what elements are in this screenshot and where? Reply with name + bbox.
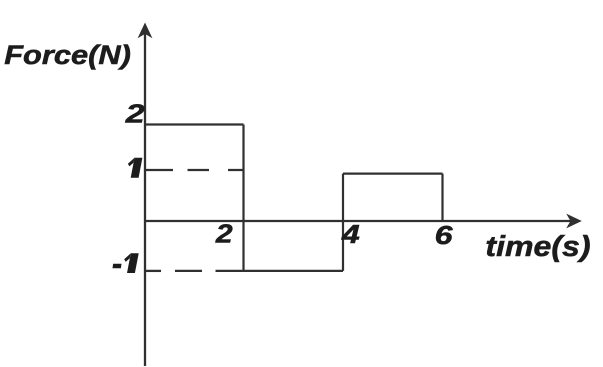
force step segment 4-6s at 1N	[343, 173, 443, 175]
svg-text:6: 6	[435, 222, 454, 250]
dashed guide line at 1N	[145, 169, 245, 171]
step drop at t=2s	[242, 125, 244, 271]
y-axis	[144, 31, 146, 366]
x-axis arrowhead	[566, 214, 582, 229]
svg-text:2: 2	[125, 100, 145, 128]
step drop at t=6s	[441, 174, 443, 221]
y-axis arrowhead	[138, 23, 153, 39]
svg-text:2: 2	[215, 220, 233, 248]
y tick label 1	[128, 158, 142, 178]
force step segment 0-2s at 2N	[145, 123, 244, 125]
step rise at t=4s	[342, 174, 344, 271]
x-axis	[145, 220, 572, 222]
svg-text:4: 4	[341, 221, 360, 249]
y tick label -1	[113, 253, 139, 273]
svg-text:time(s): time(s)	[485, 230, 590, 262]
svg-text:Force(N): Force(N)	[4, 41, 131, 71]
force step segment 2-4s at -1N	[244, 270, 344, 272]
dashed guide line at -1N	[145, 270, 245, 272]
